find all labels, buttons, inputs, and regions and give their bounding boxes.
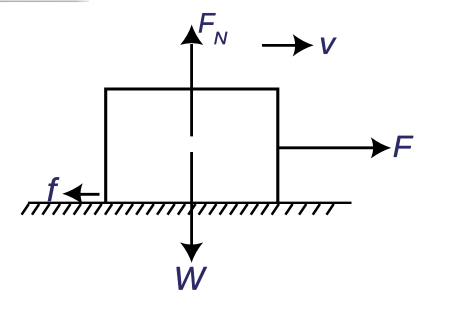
ground hatching [22,204,334,215]
top border rule fragment [0,0,1,1]
ground line [28,202,352,204]
block (box on surface) [106,88,278,204]
label F_N (letter F) [199,13,216,32]
label f [48,177,59,201]
applied force arrow F [278,146,375,149]
center line lower segment through ground to W arrow [190,152,193,245]
label v [321,38,337,54]
velocity arrow v [262,44,298,47]
normal force arrow F_N (shaft upper) [190,44,193,136]
label F [394,136,414,157]
friction arrow f [78,193,100,196]
label F_N (subscript N) [214,32,227,44]
arrowhead W (down) [180,242,203,262]
label W [177,267,207,290]
arrowhead F_N (up) [180,25,203,45]
